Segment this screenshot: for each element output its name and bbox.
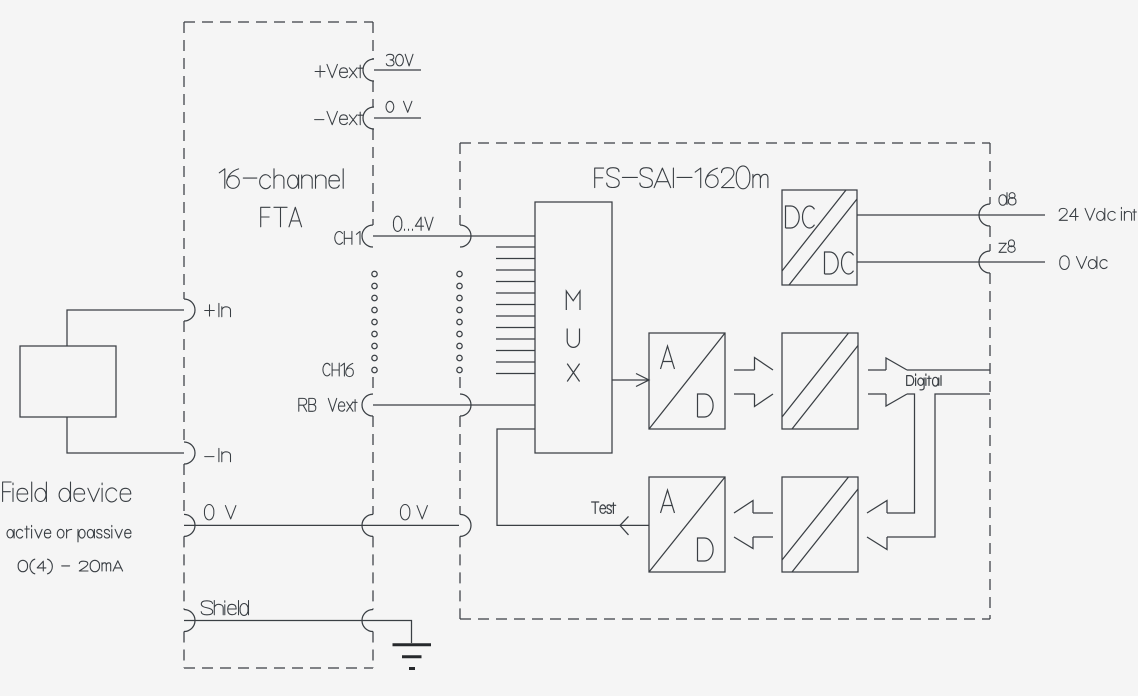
wire field device -In [67,417,184,453]
connector terminal RB Vext FTA side [362,394,373,416]
wire -Vext 0V [374,117,421,119]
label active or passive [7,525,131,542]
label Shield [201,601,248,616]
signal arrow isolator2 to ADC2 bottom [734,537,773,549]
wire digital loopback with arrow down [867,394,915,513]
wire Shield to ground [373,621,412,644]
label MUX X [567,364,579,382]
wire DC/DC to d8 [857,214,990,216]
signal arrow isolator2 to ADC2 top [734,501,773,514]
wire digital in from edge [867,394,990,550]
connector terminal +In [184,299,195,321]
label CH1 [335,231,360,244]
wire field device +In [67,310,184,346]
label 0 V left [204,505,235,520]
wire Test from ADC2 to MUX [497,429,649,525]
connector terminal CH1 module side [460,225,471,247]
label 16-channel [219,169,343,189]
label 0(4) - 20mA [18,559,122,574]
label z8 [999,240,1015,252]
wire CH1 to MUX [373,235,535,237]
signal arrow ADC1 to isolator top [734,358,773,371]
MUX input hatch lines [496,247,535,374]
isolator ISO2 box [782,477,858,572]
ADC2 A/D converter box [649,477,725,572]
label d8 [999,193,1016,206]
connector terminal Shield FTA right side [362,610,373,632]
label FS-SAI-1620m [595,166,768,189]
label MUX M [566,291,580,310]
connector terminal d8 [979,204,990,226]
label ADC1 D [698,394,714,417]
label ADC2 A [661,490,675,513]
ISO2 diagonal pair [782,477,858,572]
wire 0V FTA [184,524,459,526]
wire Shield [184,620,373,622]
label CH16 [323,363,353,376]
connector terminal 0V FTA right side [362,514,373,536]
signal arrow ADC1 to isolator bottom [734,394,773,407]
wire d8 external [990,214,1045,216]
label 0...4V [393,216,433,231]
connector terminal +Vext [363,59,374,81]
MUX box U1 [535,202,612,453]
label 0 V top [386,101,412,112]
label FTA [261,207,302,227]
label 0 Vdc [1060,256,1107,270]
connector terminal 0V module side [460,514,471,536]
ADC1 A/D converter box [649,333,725,429]
wire MUX to ADC1 [612,379,648,381]
wire z8 external [990,261,1045,263]
wire digital out top with arrow [868,358,990,370]
arrowhead Test [620,516,629,535]
label +Vext [315,64,363,77]
channel continuation dots left column [372,271,377,372]
label ADC2 D [698,538,714,561]
label +In [205,303,231,316]
label RB Vext [299,398,357,411]
ISO1 diagonal pair [782,333,858,429]
isolator ISO1 box [782,333,858,429]
arrowhead MUX to ADC1 [636,374,649,387]
label Test [592,502,616,513]
connector terminal 0V field side [184,514,195,536]
connector terminal RB Vext module side [460,394,471,416]
DC/DC converter box [782,190,857,285]
connector terminal -Vext [363,107,374,129]
label -In [205,448,231,461]
label 30V [386,54,413,66]
wire +Vext 30V [374,69,421,71]
label ADC1 A [661,346,675,369]
DC/DC diagonal pair [782,190,857,285]
label 0 V right [400,505,427,520]
label DC bottom [825,252,854,274]
connector terminal z8 [979,251,990,273]
label -Vext [315,111,364,124]
ADC1 diagonal [649,333,725,429]
label 24 Vdc int [1059,207,1136,220]
label MUX U [567,329,579,348]
ADC2 diagonal [649,477,725,572]
connector terminal -In [184,442,195,464]
field device box [20,346,116,417]
connector terminal Shield field side [184,610,195,632]
ground symbol [393,645,432,669]
wire RB Vext to MUX [373,404,535,406]
label Digital [907,374,941,390]
label DC top [786,206,815,228]
16-channel FTA dashed enclosure [184,22,373,668]
FS-SAI-1620m dashed enclosure [460,143,990,619]
label Field device [3,482,131,502]
wire DC/DC to z8 [857,261,990,263]
channel continuation dots right column [457,271,462,372]
connector terminal CH1 FTA side [362,225,373,247]
